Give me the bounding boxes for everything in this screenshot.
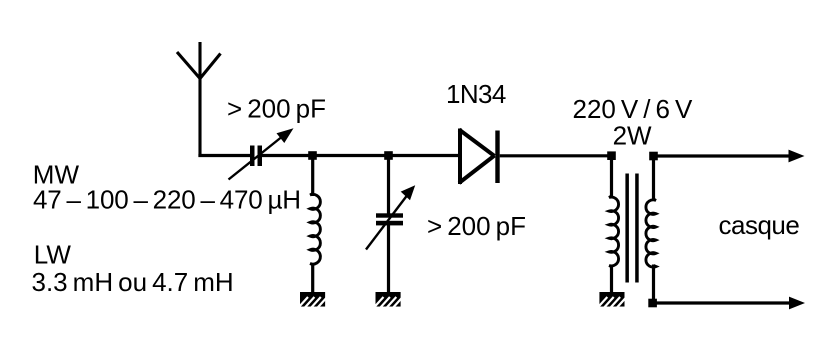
svg-text:1N34: 1N34 (446, 79, 506, 109)
wire secondary top (652, 156, 655, 201)
inductor L1 (310, 194, 320, 265)
svg-text:> 200 pF: > 200 pF (227, 93, 326, 123)
node D (secondary top) (649, 152, 658, 161)
svg-text:47 – 100 – 220 – 470 µH: 47 – 100 – 220 – 470 µH (33, 185, 301, 215)
output wire bottom with arrow (653, 297, 806, 310)
svg-text:casque: casque (719, 210, 800, 240)
svg-text:LW: LW (34, 239, 72, 269)
antenna (177, 42, 221, 157)
transformer core (625, 174, 638, 283)
wire secondary bottom (652, 265, 655, 304)
ground (C2) (373, 291, 403, 310)
ground (L1) (298, 291, 328, 310)
svg-text:3.3 mH ou 4.7 mH: 3.3 mH ou 4.7 mH (32, 267, 234, 297)
capacitor C1 (variable, series) (250, 146, 262, 167)
wire L1 to ground (311, 264, 314, 294)
wire primary to ground (610, 266, 613, 294)
ground (primary) (597, 291, 627, 310)
node E (secondary bottom) (648, 299, 657, 308)
wire primary down (610, 156, 613, 198)
diode D1 1N34 (459, 129, 495, 185)
output wire top with arrow (654, 150, 805, 163)
svg-text:220 V / 6 V: 220 V / 6 V (573, 94, 693, 124)
C1 variable arrow (229, 128, 294, 179)
wire node B down (387, 156, 390, 215)
D1 cathode bar (495, 131, 499, 184)
svg-text:> 200 pF: > 200 pF (427, 211, 526, 241)
node A (top of L1) (308, 151, 317, 160)
node B (top of C2) (384, 151, 393, 160)
wire diode to transformer (500, 154, 612, 157)
transformer T1 secondary winding (646, 199, 656, 267)
node C (primary top) (607, 151, 616, 160)
C2 variable arrow (366, 185, 415, 249)
transformer T1 primary winding (609, 196, 619, 267)
wire C2 to ground (387, 225, 390, 293)
svg-text:2W: 2W (613, 121, 652, 151)
capacitor C2 (variable, to ground) (376, 213, 403, 225)
wire antenna to C1 (198, 154, 250, 157)
wire node A down (311, 156, 314, 197)
wire C1 to diode (262, 154, 459, 157)
